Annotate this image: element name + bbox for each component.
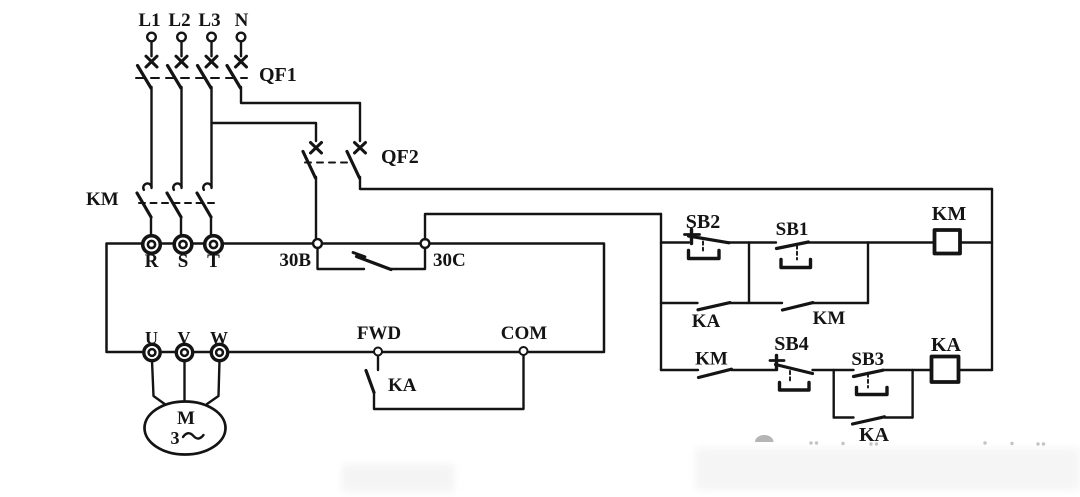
wire QF2 right pole to control top rail <box>360 177 992 189</box>
wire L2 QF1 to KM <box>180 87 182 188</box>
wire SB4 to SB3 <box>813 369 854 371</box>
wire SB3 to KA coil <box>883 369 931 371</box>
wire row2 right <box>813 302 868 304</box>
terminal T <box>205 236 223 254</box>
svg-text:KA: KA <box>859 424 890 446</box>
svg-text:SB1: SB1 <box>776 219 809 240</box>
wire N to QF2 right pole <box>241 87 360 141</box>
svg-text:KM: KM <box>932 203 967 225</box>
wire KA contact to COM <box>374 355 524 409</box>
circuit breaker QF2 pole at x=360 <box>355 143 366 154</box>
wire W to motor <box>207 361 220 405</box>
bypass switch blade <box>357 257 392 270</box>
wire SB1 to KM coil <box>809 241 935 243</box>
svg-text:L1: L1 <box>138 10 160 31</box>
relay contact KA (parallel SB2) <box>698 303 730 310</box>
branch wire under SB3 right <box>885 416 913 418</box>
svg-text:KA: KA <box>692 311 721 332</box>
wire QF2 left pole to node 30B <box>315 177 317 240</box>
svg-text:30C: 30C <box>433 250 466 271</box>
bypass switch wire right <box>391 248 425 269</box>
svg-text:T: T <box>207 251 220 272</box>
svg-text:L3: L3 <box>198 10 220 31</box>
relay contact KA (parallel SB3) <box>853 417 885 424</box>
terminal S <box>174 236 192 254</box>
svg-text:QF1: QF1 <box>259 64 297 86</box>
bypass switch 30B-30C wire left <box>318 248 365 269</box>
svg-text:KM: KM <box>86 189 119 210</box>
wire KM contact to SB4 <box>732 369 778 371</box>
node 30B <box>313 239 322 248</box>
wire row2 left <box>661 302 698 304</box>
motor M 3~ <box>145 402 226 455</box>
terminal R <box>143 236 161 254</box>
svg-text:N: N <box>235 10 249 31</box>
junction wire right of SB3 branch <box>911 370 913 418</box>
wire L3 branch to QF2 left pole <box>212 123 317 141</box>
contactor KM main contact at x=211.5 <box>203 183 211 189</box>
svg-text:SB3: SB3 <box>851 349 884 370</box>
node 30C <box>421 239 430 248</box>
svg-text:KA: KA <box>388 375 417 396</box>
svg-text:SB4: SB4 <box>774 333 808 355</box>
right control rail <box>991 189 993 370</box>
svg-text:S: S <box>178 251 189 272</box>
bypass switch actuator tick <box>353 253 365 257</box>
circuit breaker QF1 pole 1 (L1) <box>146 56 157 67</box>
wire L1 QF1 to KM <box>150 87 152 188</box>
wire row2 mid <box>730 302 782 304</box>
QF2 gang dashed link <box>305 162 351 164</box>
branch wire under SB3 left <box>834 416 854 418</box>
contactor contact KM (parallel SB1) <box>783 303 814 310</box>
svg-text:3: 3 <box>171 428 180 448</box>
junction wire (SB2/SB1 to row2) <box>748 243 750 304</box>
svg-text:R: R <box>145 251 159 272</box>
junction wire (SB1/KM coil to row2) <box>867 243 869 304</box>
svg-text:M: M <box>177 408 195 429</box>
svg-text:KM: KM <box>695 349 728 370</box>
node COM <box>520 347 528 355</box>
QF1 gang dashed link <box>136 77 247 79</box>
circuit breaker QF1 pole 2 (L2) <box>176 56 187 67</box>
svg-text:L2: L2 <box>168 10 190 31</box>
wire L3 QF1 to KM (junction to QF2) <box>210 87 212 188</box>
relay contact KA (FWD) stub <box>377 356 379 370</box>
KM gang dashed link <box>139 202 214 204</box>
wire U to motor <box>152 361 166 406</box>
circuit breaker QF1 pole 4 (N) <box>236 56 247 67</box>
left control rail <box>660 214 662 370</box>
contactor KM main contact at x=151.5 <box>143 183 151 189</box>
wire KA coil to right rail <box>959 369 993 371</box>
svg-text:KA: KA <box>931 334 962 356</box>
inverter box <box>107 244 605 353</box>
svg-text:COM: COM <box>501 323 548 344</box>
wire KM coil to right rail <box>960 241 992 243</box>
junction wire left of SB3 branch <box>833 370 835 418</box>
wire row3 left <box>661 369 698 371</box>
wire V to motor <box>183 361 185 403</box>
svg-text:FWD: FWD <box>357 323 401 344</box>
svg-text:KM: KM <box>813 308 846 329</box>
svg-text:QF2: QF2 <box>381 146 419 168</box>
circuit breaker QF1 pole 3 (L3) <box>206 56 217 67</box>
node FWD <box>374 348 382 356</box>
wire 30C to left control rail <box>425 214 661 240</box>
contactor KM main contact at x=181.5 <box>173 183 181 189</box>
wire row1 left <box>661 241 689 243</box>
relay contact KA (FWD) blade <box>366 371 374 393</box>
svg-text:30B: 30B <box>279 250 311 271</box>
wire SB2 to SB1 <box>729 241 776 243</box>
circuit breaker QF2 pole at x=316 <box>311 143 322 154</box>
